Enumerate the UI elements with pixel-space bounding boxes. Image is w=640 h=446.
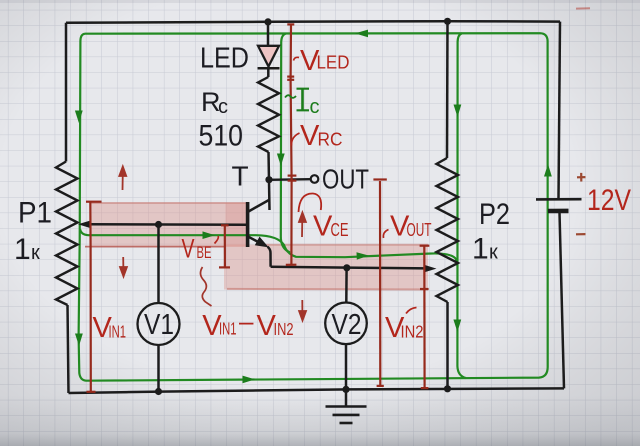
junction P2-bottom — [444, 385, 451, 392]
wire P2 bottom — [446, 302, 449, 389]
svg-text:RC: RC — [318, 130, 343, 150]
node OUT terminal — [311, 175, 319, 183]
svg-text:к: к — [31, 242, 40, 264]
wire bottom — [69, 388, 565, 393]
potentiometer P1 — [56, 162, 78, 306]
wire LED anode from top — [267, 22, 270, 46]
junction top-P2 — [444, 18, 451, 25]
wire left lower — [68, 305, 69, 393]
transistor T — [248, 200, 270, 248]
battery 12V — [536, 199, 582, 211]
green arrow Rc (down) — [277, 154, 285, 167]
highlight band B (emitter/output path) — [224, 203, 428, 290]
wire collector — [269, 152, 270, 210]
green branch Rc/collector — [281, 34, 290, 253]
svg-text:IN1: IN1 — [219, 319, 237, 339]
svg-text:P2: P2 — [479, 198, 510, 231]
source V2 — [325, 303, 367, 345]
wire LED to Rc — [267, 68, 270, 77]
wire V2 bottom — [345, 344, 348, 389]
green arrow battery (up) — [544, 164, 552, 177]
svg-text:V2: V2 — [332, 309, 362, 341]
green arrow left side (down) — [75, 111, 83, 124]
label VIN2 — [385, 308, 424, 345]
green branch to P2 — [457, 33, 466, 378]
svg-text:12V: 12V — [587, 184, 631, 217]
junction collector-OUT — [265, 176, 272, 183]
svg-text:–: – — [239, 306, 254, 336]
label VCE — [299, 193, 349, 242]
svg-text:1: 1 — [14, 233, 31, 266]
svg-text:OUT: OUT — [407, 220, 432, 240]
green branch base-emitter path — [80, 229, 457, 266]
label battery plus — [577, 173, 586, 182]
svg-text:к: к — [489, 242, 498, 264]
red arrow down (right of VIN1-VIN2) — [299, 300, 306, 321]
potentiometer P2 — [437, 158, 459, 302]
measurement VIN2 bar — [420, 246, 430, 388]
wire right lower — [560, 213, 565, 389]
wire emitter/output horizontal to P2 wiper — [271, 267, 426, 269]
svg-text:c: c — [218, 96, 228, 118]
measurement VLED/VRC/VCE bar — [286, 24, 297, 265]
svg-text:V: V — [182, 234, 195, 264]
wire V1 bottom — [157, 345, 160, 392]
source V1 — [138, 303, 180, 345]
green current loop outer — [79, 33, 548, 381]
wire OUT — [269, 178, 311, 181]
svg-text:P1: P1 — [18, 197, 52, 230]
label VOUT — [383, 211, 431, 243]
svg-text:LED: LED — [317, 53, 350, 73]
svg-text:IN2: IN2 — [274, 319, 294, 339]
svg-text:T: T — [232, 161, 249, 192]
red polarity arrow down (below band A) — [120, 257, 127, 277]
label IC — [285, 89, 320, 118]
svg-text:510: 510 — [199, 120, 244, 153]
svg-text:IN2: IN2 — [401, 322, 424, 342]
green arrow left lower (down) — [75, 334, 83, 347]
wire base (P1 wiper line) — [86, 223, 247, 226]
svg-text:c: c — [310, 96, 320, 118]
P2 wiper arrowhead — [424, 265, 437, 273]
wire V1 top — [157, 225, 160, 304]
measurement VBE right bar — [219, 225, 230, 267]
highlight band A (base path) — [85, 203, 248, 247]
label Rc — [201, 87, 228, 118]
junction V2-bottom — [342, 386, 349, 393]
svg-text:V1: V1 — [144, 309, 174, 341]
led LED — [258, 46, 280, 69]
green arrow base line (right) — [203, 231, 216, 239]
label VRC — [291, 120, 342, 152]
label P2 value 1k — [472, 233, 498, 266]
junction V1-bottom — [155, 388, 162, 395]
red dash top right — [576, 7, 590, 9]
junction base-V1 — [155, 221, 162, 228]
svg-text:LED: LED — [200, 43, 249, 75]
green arrow P2 lower (down) — [453, 320, 461, 333]
green arrow emitter line (right) — [357, 252, 370, 259]
label VIN1-VIN2 — [202, 306, 293, 342]
wire P2 top — [446, 21, 449, 158]
label P1 value 1k — [14, 233, 40, 266]
green arrow P2 top (down) — [454, 105, 462, 118]
label VBE — [182, 234, 219, 264]
green arrow bottom (right) — [243, 376, 256, 384]
ground — [326, 389, 367, 423]
red squiggle VBE to difference label — [200, 267, 211, 306]
svg-text:CE: CE — [331, 220, 349, 240]
measurement VBE/VIN1 bar — [86, 202, 102, 392]
svg-text:OUT: OUT — [322, 164, 369, 195]
green arrow top (left) — [355, 30, 368, 38]
label battery minus — [576, 233, 586, 235]
svg-text:1: 1 — [472, 233, 489, 266]
red polarity arrow up (VCE) — [299, 213, 306, 238]
svg-text:BE: BE — [197, 243, 212, 262]
red polarity arrow up (above band A) — [119, 167, 126, 191]
junction emitter-V2 — [343, 264, 350, 271]
wire right upper — [559, 22, 561, 198]
wire emitter down — [268, 247, 271, 267]
label VIN1 — [93, 312, 127, 344]
resistor Rc — [258, 77, 279, 152]
svg-text:IN1: IN1 — [109, 322, 127, 342]
wire left upper — [65, 23, 68, 162]
wire V2 top — [345, 268, 348, 303]
measurement VOUT bar — [373, 180, 386, 386]
junction top-LED — [264, 18, 271, 25]
P1 wiper arrowhead — [78, 221, 91, 229]
wire top — [66, 21, 560, 23]
label VLED — [294, 45, 350, 77]
